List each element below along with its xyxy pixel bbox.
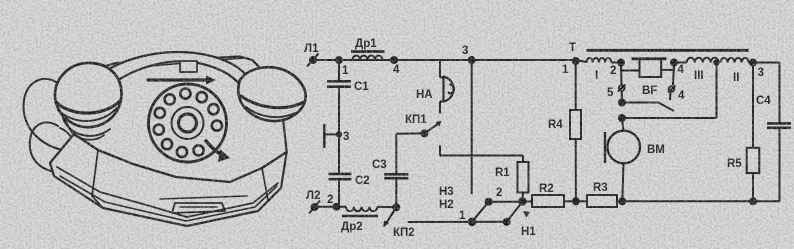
handset handle band [96,52,247,89]
capacitor C4 [767,122,791,125]
resistor R3 [576,200,587,202]
telephone body silhouette [50,57,287,227]
hook switch contact 5 [620,63,623,86]
node 4 [391,57,397,63]
wire top rail left [313,59,576,61]
wire bottom left [315,206,347,208]
hook switch contact 4 [673,63,674,86]
dial contact H1 arm [507,202,523,222]
dial center [172,107,204,139]
terminal L1 [310,57,316,63]
capacitor C3 [395,179,397,208]
top rail right [576,60,587,62]
ringer HA [444,76,454,102]
node 2 T [618,60,624,66]
node 2 [334,204,340,210]
handset mouthpiece [238,67,305,121]
telephone deck left corner edge [50,134,74,163]
node 3 right [750,60,756,66]
handset rest bar [148,78,206,81]
capacitor C1 [338,60,340,81]
terminal L2 [312,204,318,210]
resistor R1 [518,162,529,193]
telephone front mid lines [92,150,103,208]
winding II [721,58,749,63]
node T1 [573,58,579,64]
inductor Dr1 core [351,50,385,53]
node 3 top [469,57,475,63]
resistor R4 [575,61,577,110]
hook switch arm [622,103,674,112]
bottom rail middle [408,221,507,223]
handset earpiece [55,63,121,127]
switch KP1 arm [424,124,438,134]
transformer core [587,49,749,52]
junction III/II [714,60,718,64]
telephone deck front edge [74,134,287,182]
finger stop arrow [206,141,224,156]
wire C1 to C2 [338,87,340,174]
wire stub to R1 line [439,146,441,156]
telephone base skirt line [57,167,278,217]
rotary dial outer [149,84,227,162]
telephone back edge double line [103,58,243,70]
dial finger holes [154,89,222,158]
winding I [587,58,612,63]
telephone cord [24,79,76,152]
dial contacts H2 arm [469,219,476,226]
resistor R5 [752,63,754,148]
phone BF [640,59,662,78]
ringer HA branch [439,60,441,78]
wire to KP2 [377,206,396,209]
capacitor C2 [329,173,352,176]
resistor R2 [522,201,532,203]
bottom rail right [622,200,779,202]
hook switch lower rail [619,115,625,121]
node 4 T [671,60,677,66]
terminal 3 tap [323,124,325,148]
winding III [674,62,687,64]
inductor Dr2 core [342,215,378,217]
switch KP2 arm [386,207,396,223]
node 1 [336,57,342,63]
microphone BM [622,118,624,131]
inductor Dr2 [346,207,377,211]
wire C3 to KP1 pivot [396,132,424,134]
inductor Dr1 [353,56,383,60]
phone BF leads [620,63,622,71]
wire to C4 [749,62,780,64]
drawer handle [160,196,247,199]
